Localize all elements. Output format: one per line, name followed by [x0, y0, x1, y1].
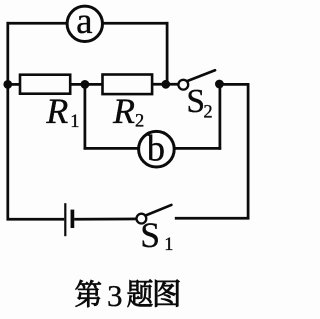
wire b-branch left vertical	[84, 84, 87, 149]
caption character 题	[128, 279, 153, 307]
wire b-branch bottom right	[174, 147, 221, 150]
node junction R2-S2	[161, 80, 170, 89]
svg-text:2: 2	[203, 103, 212, 123]
svg-text:2: 2	[135, 111, 144, 131]
wire top-left horizontal	[7, 22, 68, 25]
caption character 图	[155, 280, 179, 307]
battery cell	[65, 203, 72, 236]
svg-text:1: 1	[164, 235, 173, 255]
resistor R1	[20, 75, 79, 132]
switch S2	[178, 70, 215, 122]
svg-text:1: 1	[70, 112, 79, 132]
wire R1 to R2	[71, 83, 104, 86]
svg-text:R: R	[45, 91, 68, 131]
svg-text:3: 3	[107, 278, 123, 313]
svg-text:R: R	[112, 91, 135, 131]
resistor R2	[103, 75, 153, 132]
wire right vertical	[247, 83, 250, 219]
wire b-branch right vertical	[219, 84, 222, 150]
node junction left	[3, 80, 12, 89]
wire bottom left horizontal	[7, 218, 65, 221]
wire b-branch bottom left	[84, 147, 140, 150]
wire S1 to bottom right	[175, 217, 250, 220]
wire battery to S1	[74, 218, 137, 221]
caption character 第	[75, 280, 100, 307]
wire R2 to S2	[153, 83, 181, 86]
wire ammeter drop vertical	[166, 22, 169, 84]
svg-text:S: S	[186, 83, 205, 120]
wire left to R1	[8, 83, 21, 86]
switch S1	[137, 205, 174, 255]
voltmeter U b	[139, 127, 175, 168]
svg-text:S: S	[140, 215, 160, 255]
svg-text:a: a	[76, 1, 92, 42]
ammeter U a	[67, 1, 102, 42]
wire S2 to right vertical	[219, 83, 249, 86]
svg-text:b: b	[147, 127, 165, 168]
wire top-right horizontal	[102, 22, 168, 25]
node junction S2 right contact	[215, 80, 224, 89]
wire left vertical	[6, 22, 9, 221]
node junction between R1 and R2	[81, 80, 90, 89]
